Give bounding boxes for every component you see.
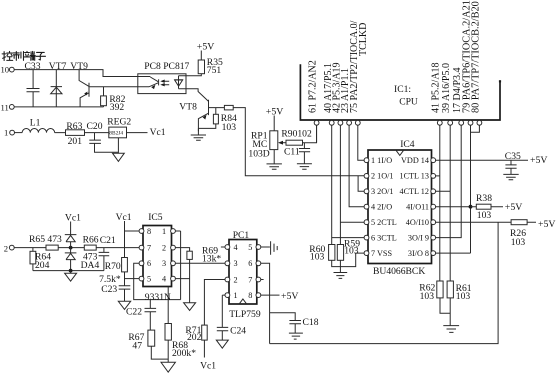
- svg-text:103: 103: [456, 291, 471, 302]
- svg-text:IC1:: IC1:: [394, 84, 411, 95]
- svg-text:1CTL 13: 1CTL 13: [400, 172, 430, 181]
- svg-text:R63: R63: [66, 121, 82, 132]
- svg-text:6: 6: [147, 259, 151, 268]
- svg-text:7: 7: [147, 243, 151, 252]
- svg-text:4: 4: [162, 274, 166, 283]
- svg-text:41 P5.2/A18: 41 P5.2/A18: [431, 62, 442, 113]
- svg-text:TCLKD: TCLKD: [358, 23, 369, 56]
- svg-text:VDD 14: VDD 14: [401, 156, 429, 165]
- svg-text:47: 47: [132, 340, 142, 351]
- svg-text:BU4066BCK: BU4066BCK: [373, 266, 425, 277]
- svg-text:103: 103: [420, 291, 435, 302]
- svg-text:VT7: VT7: [49, 61, 67, 72]
- svg-text:103: 103: [511, 237, 526, 248]
- svg-text:Vc1: Vc1: [150, 127, 166, 138]
- svg-text:103: 103: [344, 246, 359, 257]
- svg-text:39 A16/P5.0: 39 A16/P5.0: [441, 63, 452, 113]
- svg-text:PC8 PC817: PC8 PC817: [144, 61, 189, 72]
- svg-text:L1: L1: [30, 118, 41, 129]
- svg-text:80 PA7/TP7/TIOCB.2/B20: 80 PA7/TP7/TIOCB.2/B20: [471, 1, 482, 113]
- svg-text:11: 11: [1, 102, 9, 112]
- svg-text:7: 7: [248, 275, 252, 284]
- svg-text:9331N: 9331N: [145, 292, 171, 303]
- svg-text:+5V: +5V: [505, 202, 523, 213]
- svg-text:C20: C20: [87, 121, 103, 132]
- svg-text:TLP759: TLP759: [229, 309, 261, 320]
- svg-text:Vc1: Vc1: [65, 212, 81, 223]
- svg-text:8B2J4: 8B2J4: [109, 130, 123, 136]
- svg-text:204: 204: [35, 260, 50, 271]
- svg-text:4O/I10: 4O/I10: [406, 218, 429, 227]
- svg-text:392: 392: [110, 102, 125, 113]
- svg-text:3: 3: [234, 259, 238, 268]
- svg-text:C24: C24: [230, 325, 246, 336]
- svg-text:VT9: VT9: [70, 61, 88, 72]
- svg-text:C18: C18: [303, 317, 319, 328]
- svg-text:REG2: REG2: [107, 117, 131, 128]
- svg-text:Vc1: Vc1: [116, 212, 132, 223]
- svg-text:103D: 103D: [248, 149, 269, 160]
- svg-text:2: 2: [162, 243, 166, 252]
- svg-text:4: 4: [234, 243, 238, 252]
- svg-text:5: 5: [147, 274, 151, 283]
- svg-text:1: 1: [234, 291, 238, 300]
- svg-text:1: 1: [4, 127, 8, 137]
- svg-text:8: 8: [147, 227, 151, 236]
- svg-text:1: 1: [162, 227, 166, 236]
- svg-text:10: 10: [1, 65, 10, 75]
- svg-text:3 2O/1: 3 2O/1: [371, 187, 394, 196]
- svg-text:+5V: +5V: [281, 291, 299, 302]
- svg-text:C23: C23: [101, 284, 117, 295]
- svg-text:+5V: +5V: [538, 219, 556, 230]
- svg-text:13k*: 13k*: [202, 254, 221, 265]
- svg-text:+5V: +5V: [197, 42, 215, 53]
- svg-text:C21: C21: [100, 235, 116, 246]
- svg-text:751: 751: [207, 65, 222, 76]
- svg-text:201: 201: [68, 136, 83, 147]
- svg-text:2: 2: [234, 275, 238, 284]
- svg-text:C11: C11: [284, 146, 300, 157]
- svg-text:C22: C22: [126, 307, 142, 318]
- svg-text:CPU: CPU: [399, 96, 418, 107]
- svg-text:4CTL 12: 4CTL 12: [400, 187, 430, 196]
- svg-text:3: 3: [162, 259, 166, 268]
- svg-text:C35: C35: [505, 151, 521, 162]
- svg-text:1 1I/O: 1 1I/O: [371, 156, 392, 165]
- svg-text:103: 103: [477, 210, 492, 221]
- svg-text:103: 103: [222, 122, 237, 133]
- svg-text:5: 5: [248, 243, 252, 252]
- svg-text:61 P7.2/AN2: 61 P7.2/AN2: [308, 60, 319, 113]
- svg-text:IC4: IC4: [400, 139, 415, 150]
- svg-text:VT8: VT8: [179, 102, 197, 113]
- svg-text:103: 103: [310, 252, 325, 263]
- svg-text:5 2CTL: 5 2CTL: [371, 218, 397, 227]
- svg-text:+5V: +5V: [530, 155, 548, 166]
- svg-text:PC1: PC1: [233, 230, 250, 241]
- svg-text:3O/I 9: 3O/I 9: [408, 233, 429, 242]
- svg-text:2: 2: [4, 243, 8, 253]
- svg-text:4I/O11: 4I/O11: [406, 203, 429, 212]
- svg-text:8: 8: [248, 291, 252, 300]
- svg-text:202: 202: [187, 332, 202, 343]
- svg-text:7 VSS: 7 VSS: [371, 249, 392, 258]
- svg-text:R38: R38: [476, 193, 492, 204]
- svg-text:C33: C33: [25, 61, 41, 72]
- svg-text:3I/O 8: 3I/O 8: [408, 249, 429, 258]
- svg-text:R70: R70: [105, 261, 121, 272]
- svg-text:6 3CTL: 6 3CTL: [371, 233, 397, 242]
- svg-text:R65 473: R65 473: [29, 234, 62, 245]
- svg-text:R90102: R90102: [281, 128, 312, 139]
- svg-text:2 1O/1: 2 1O/1: [371, 172, 394, 181]
- svg-text:IC5: IC5: [148, 212, 163, 223]
- svg-text:R66: R66: [83, 234, 99, 245]
- svg-text:Vc1: Vc1: [200, 361, 216, 372]
- svg-text:4 2I/O: 4 2I/O: [371, 203, 392, 212]
- svg-text:DA4: DA4: [81, 260, 100, 271]
- svg-text:+5V: +5V: [266, 107, 284, 118]
- svg-text:6: 6: [248, 259, 252, 268]
- svg-text:200k*: 200k*: [172, 348, 196, 359]
